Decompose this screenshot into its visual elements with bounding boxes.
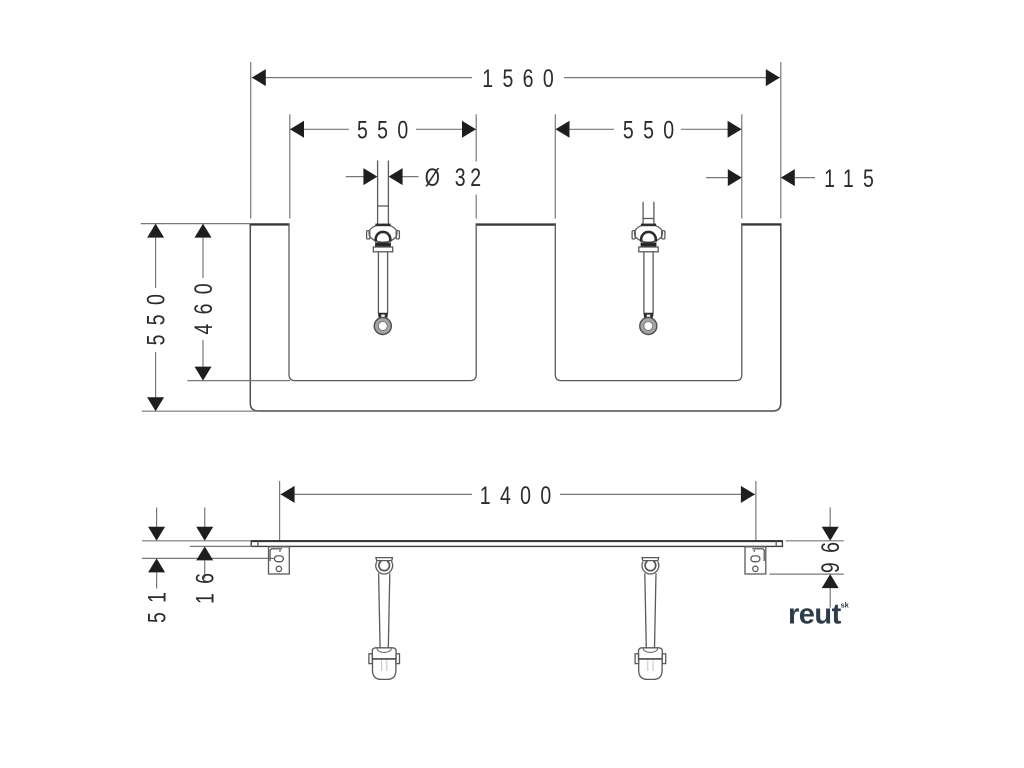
svg-text:460: 460 (190, 274, 218, 335)
left basin cutout (289, 224, 476, 381)
extension line bracket bottom right (96) (770, 573, 844, 575)
bottom extension line for 550 vertical dim (142, 410, 256, 412)
bottom extension line for 460 vertical dim (187, 380, 290, 382)
dimension 550 vertical (147, 224, 164, 238)
extension line slab top right (96) (786, 540, 844, 542)
svg-text:1560: 1560 (482, 64, 563, 92)
right basin cutout (555, 224, 742, 381)
dimension 1560 extension lines (250, 62, 252, 219)
dimension 1560 (252, 77, 472, 79)
dimension 550 (right basin) (556, 128, 615, 130)
svg-text:1400: 1400 (480, 481, 561, 509)
svg-text:550: 550 (142, 285, 170, 346)
right wall bracket (745, 547, 766, 574)
slab right end joint (775, 541, 777, 546)
extension line bracket hole (51) (142, 557, 275, 559)
dimension 96 (829, 508, 831, 528)
console outer outline (top view) (250, 224, 781, 411)
dimension 460 vertical (195, 224, 212, 238)
dimension 16 (204, 508, 206, 528)
top extension line for 550/460 vertical dims (141, 223, 250, 225)
svg-text:sk: sk (841, 601, 850, 610)
dimension 550 (left basin) extension lines (289, 114, 291, 218)
dimension Ø32 (346, 176, 364, 178)
svg-text:96: 96 (817, 533, 845, 573)
svg-text:550: 550 (357, 116, 418, 144)
console back edge left wing (250, 223, 290, 225)
svg-text:115: 115 (824, 165, 883, 193)
left drain assembly (367, 161, 400, 335)
dimension 1400 (281, 493, 472, 495)
console back edge right wing (741, 223, 781, 225)
slab left end joint (257, 541, 259, 546)
console slab (front view) (251, 541, 782, 547)
dimension 1400 extension lines (279, 481, 281, 540)
left trap (siphon) (369, 558, 400, 680)
dimension 550 (left basin) (290, 128, 349, 130)
svg-text:reut: reut (788, 599, 842, 631)
right drain assembly (632, 202, 665, 335)
svg-text:Ø 32: Ø 32 (425, 164, 486, 192)
dimension 550 (right basin) extension lines (554, 114, 556, 218)
extension line slab bottom (16) (190, 545, 252, 547)
svg-text:550: 550 (623, 116, 684, 144)
left wall bracket (269, 547, 290, 574)
right trap (siphon) (635, 558, 666, 680)
dimension 115 (706, 177, 729, 179)
svg-text:51: 51 (143, 583, 171, 623)
console back edge center bridge (476, 223, 557, 225)
dimension 51 (156, 508, 158, 528)
svg-text:16: 16 (191, 564, 219, 604)
extension line slab top left (142, 540, 251, 542)
